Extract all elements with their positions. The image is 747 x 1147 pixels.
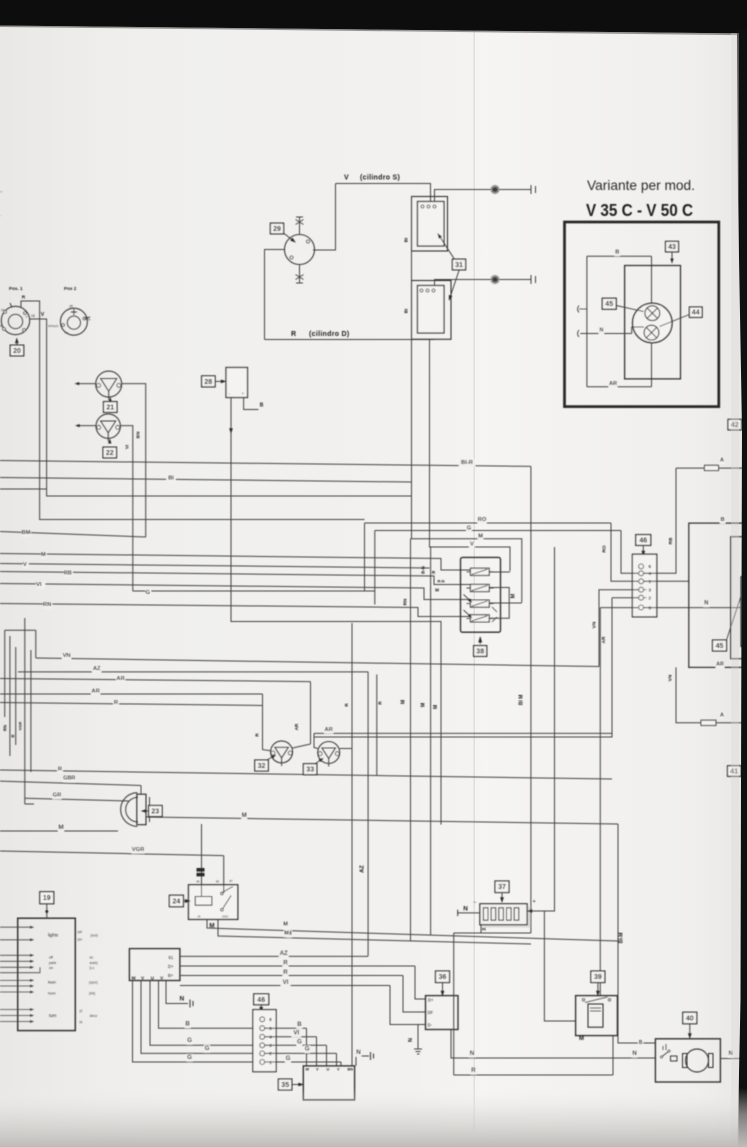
svg-text:G: G: [187, 1037, 192, 1044]
svg-text:19: 19: [43, 895, 51, 902]
svg-text:off: off: [49, 956, 53, 960]
svg-text:N: N: [356, 1049, 361, 1056]
svg-text:BN: BN: [136, 431, 142, 438]
svg-text:46: 46: [639, 538, 647, 545]
svg-text:28: 28: [204, 379, 212, 386]
svg-text:GBR: GBR: [63, 776, 75, 782]
svg-text:+: +: [533, 899, 536, 905]
svg-text:R: R: [22, 295, 26, 301]
svg-text:turn: turn: [49, 1013, 57, 1018]
svg-text:RN: RN: [3, 725, 8, 731]
svg-text:B: B: [639, 1040, 643, 1046]
svg-text:N: N: [599, 328, 603, 334]
svg-text:VN: VN: [667, 674, 673, 681]
svg-text:U: U: [26, 315, 28, 319]
svg-text:RN: RN: [403, 598, 408, 605]
svg-text:B: B: [297, 1021, 302, 1028]
svg-text:D-: D-: [428, 1023, 433, 1028]
svg-text:U: U: [327, 1067, 330, 1071]
svg-text:Fa: Fa: [87, 318, 91, 322]
svg-text:G: G: [146, 590, 151, 596]
svg-text:(cilindro S): (cilindro S): [360, 175, 400, 182]
svg-text:VN: VN: [592, 621, 598, 628]
svg-text:23: 23: [151, 809, 159, 816]
svg-text:V: V: [141, 975, 144, 980]
svg-text:BN: BN: [348, 1067, 354, 1071]
svg-text:40: 40: [686, 1016, 694, 1023]
svg-text:24: 24: [173, 899, 181, 906]
svg-text:on: on: [49, 966, 53, 970]
svg-text:N: N: [704, 601, 708, 607]
svg-text:G: G: [467, 526, 472, 532]
svg-text:R: R: [471, 1067, 476, 1074]
svg-text:(sprz): (sprz): [89, 981, 98, 985]
svg-text:85: 85: [216, 880, 220, 884]
svg-text:38: 38: [476, 649, 484, 656]
svg-text:43: 43: [668, 244, 676, 251]
svg-text:44: 44: [692, 310, 700, 317]
svg-text:RB: RB: [668, 537, 674, 544]
svg-text:B: B: [0, 324, 2, 328]
svg-text:45: 45: [716, 643, 724, 650]
svg-text:VGR: VGR: [132, 847, 145, 853]
svg-text:D+: D+: [428, 998, 434, 1003]
svg-text:M: M: [433, 705, 439, 709]
svg-text:G: G: [297, 1039, 302, 1046]
svg-text:AR: AR: [91, 689, 100, 695]
svg-text:RO: RO: [478, 517, 487, 523]
svg-text:DF: DF: [428, 1010, 434, 1015]
svg-text:R: R: [291, 331, 296, 338]
svg-text:M: M: [242, 813, 247, 819]
svg-text:Pos. 1: Pos. 1: [9, 286, 23, 291]
svg-text:N: N: [470, 1050, 475, 1057]
svg-text:D+: D+: [168, 964, 174, 969]
svg-text:AR: AR: [116, 676, 125, 682]
svg-text:RB: RB: [64, 571, 72, 577]
svg-text:RO: RO: [602, 545, 608, 552]
svg-text:BI M: BI M: [519, 695, 525, 706]
svg-text:B: B: [721, 517, 725, 523]
svg-text:V: V: [160, 975, 163, 980]
svg-text:36: 36: [439, 974, 447, 981]
svg-text:M: M: [511, 593, 517, 598]
svg-text:N: N: [179, 996, 184, 1003]
svg-text:B-N: B-N: [420, 566, 425, 574]
svg-text:VI: VI: [283, 979, 289, 986]
svg-text:(an: (an: [78, 938, 83, 942]
svg-text:B+: B+: [168, 973, 174, 978]
svg-text:R-N: R-N: [437, 579, 444, 584]
svg-text:BI-R: BI-R: [461, 460, 474, 466]
svg-text:M: M: [41, 552, 46, 558]
svg-text:BI: BI: [168, 476, 174, 482]
svg-text:M: M: [421, 703, 427, 707]
svg-text:35: 35: [281, 1082, 289, 1089]
svg-text:20: 20: [13, 348, 21, 355]
svg-text:AZ: AZ: [360, 865, 366, 873]
svg-text:22: 22: [106, 450, 114, 457]
svg-text:RN: RN: [43, 602, 51, 608]
svg-text:VI: VI: [293, 1030, 299, 1037]
svg-text:VI: VI: [36, 582, 42, 588]
svg-text:W: W: [306, 1067, 310, 1071]
svg-text:G: G: [205, 1045, 210, 1052]
svg-text:M: M: [284, 931, 289, 937]
svg-text:Variante per mod.: Variante per mod.: [587, 178, 695, 193]
svg-text:VI: VI: [125, 445, 130, 449]
svg-text:R: R: [283, 969, 288, 976]
svg-text:45: 45: [605, 301, 613, 308]
svg-text:87: 87: [230, 879, 234, 883]
svg-text:BM: BM: [22, 530, 31, 536]
svg-text:Pos 2: Pos 2: [64, 286, 77, 291]
svg-text:BI: BI: [404, 238, 409, 243]
svg-text:(trb): (trb): [89, 992, 95, 996]
svg-text:G: G: [286, 1055, 291, 1062]
svg-text:V 35 C - V 50 C: V 35 C - V 50 C: [586, 200, 693, 220]
svg-text:(a: (a: [80, 1020, 83, 1024]
svg-text:VN: VN: [63, 653, 71, 659]
svg-text:R: R: [283, 960, 288, 967]
svg-text:1B: 1B: [31, 314, 35, 318]
svg-text:N: N: [408, 1038, 414, 1042]
svg-text:U: U: [151, 975, 154, 980]
svg-text:AR: AR: [601, 636, 607, 643]
svg-text:–: –: [474, 900, 477, 906]
svg-text:anab): anab): [90, 961, 98, 965]
svg-text:(ab: (ab: [78, 930, 83, 934]
svg-text:AZ: AZ: [280, 950, 288, 957]
svg-text:86: 86: [197, 880, 201, 884]
svg-text:37: 37: [498, 884, 506, 891]
svg-text:G: G: [187, 1054, 192, 1061]
svg-text:V: V: [23, 562, 27, 568]
svg-text:flash: flash: [48, 981, 56, 985]
svg-text:JR: JR: [69, 305, 74, 309]
svg-text:M: M: [401, 700, 407, 704]
svg-text:39: 39: [594, 974, 602, 981]
svg-text:GR: GR: [53, 793, 63, 799]
svg-text:G: G: [305, 1046, 310, 1053]
svg-text:park: park: [49, 961, 56, 965]
svg-text:N: N: [463, 906, 468, 913]
svg-text:(d: (d: [80, 1009, 83, 1013]
svg-text:30/51: 30/51: [222, 915, 229, 919]
svg-text:M: M: [283, 922, 288, 928]
svg-text:31: 31: [455, 262, 463, 269]
svg-text:(cilindro D): (cilindro D): [309, 331, 350, 338]
svg-text:horn: horn: [48, 992, 56, 996]
svg-text:33: 33: [306, 767, 314, 774]
svg-text:AR: AR: [609, 381, 617, 387]
svg-text:B: B: [260, 403, 264, 409]
svg-text:30: 30: [198, 915, 202, 919]
svg-text:V: V: [41, 312, 45, 318]
svg-text:R: R: [10, 734, 15, 737]
svg-text:21: 21: [106, 405, 114, 412]
svg-text:29: 29: [273, 226, 281, 233]
svg-text:ZA: ZA: [1, 308, 5, 312]
svg-text:Ne: Ne: [65, 331, 69, 335]
svg-text:B: B: [615, 250, 619, 256]
svg-text:AR: AR: [294, 723, 299, 730]
svg-text:(lucl): (lucl): [91, 934, 98, 938]
svg-text:N: N: [632, 1050, 637, 1057]
svg-text:W/Sa/G: W/Sa/G: [48, 324, 59, 328]
svg-text:VGR: VGR: [17, 722, 22, 731]
svg-text:M: M: [478, 534, 483, 540]
svg-text:B: B: [185, 1021, 190, 1028]
svg-text:AZ: AZ: [93, 666, 101, 672]
svg-text:V: V: [344, 175, 349, 182]
svg-text:AR: AR: [716, 662, 724, 668]
svg-text:M: M: [435, 588, 439, 593]
svg-text:M: M: [58, 824, 63, 831]
svg-text:direz: direz: [90, 1014, 98, 1018]
svg-text:32: 32: [258, 763, 266, 770]
svg-text:46: 46: [257, 997, 265, 1004]
svg-text:AR: AR: [325, 727, 334, 733]
svg-text:BI-M: BI-M: [619, 933, 625, 944]
svg-text:V: V: [470, 542, 474, 548]
svg-text:M: M: [579, 1036, 584, 1042]
svg-text:BI: BI: [404, 309, 409, 314]
svg-text:(Lu: (Lu: [90, 966, 95, 970]
svg-text:lights: lights: [48, 933, 58, 938]
svg-text:61: 61: [169, 955, 174, 960]
svg-text:au: au: [90, 956, 94, 960]
svg-text:+: +: [242, 391, 245, 396]
